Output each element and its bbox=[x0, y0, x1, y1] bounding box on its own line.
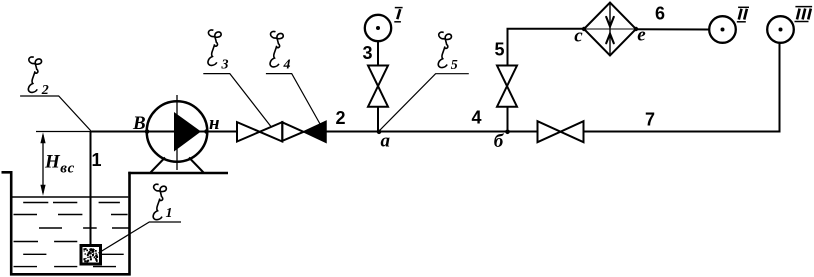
discharge regulating valve (bowtie) bbox=[538, 121, 584, 142]
svg-text:1: 1 bbox=[91, 150, 101, 170]
svg-text:4: 4 bbox=[283, 58, 291, 73]
node b bbox=[505, 130, 510, 135]
svg-text:е: е bbox=[637, 25, 646, 46]
svg-text:2: 2 bbox=[41, 83, 49, 98]
valve 3 (vertical hourglass) bbox=[368, 66, 388, 107]
wire: node b to discharge valve bbox=[508, 131, 539, 133]
pressure gauge III bbox=[767, 16, 794, 43]
wire: node b up to valve 5 bbox=[507, 107, 509, 132]
label xi3 with leader bbox=[203, 30, 271, 127]
wire: riser to gauge III bbox=[779, 43, 781, 133]
wire: pump to valve xi3 bbox=[207, 131, 238, 133]
svg-text:5: 5 bbox=[494, 40, 504, 60]
svg-text:6: 6 bbox=[655, 3, 665, 23]
wire: pipe 7 bbox=[584, 131, 781, 133]
wire: suction pipe to pump bbox=[90, 131, 147, 133]
label III (roman) bbox=[795, 7, 813, 22]
svg-text:В: В bbox=[132, 113, 146, 134]
wire: pipe 6 to gauge II bbox=[636, 28, 709, 30]
label I (roman) bbox=[394, 8, 402, 22]
wire: pipe 4 (node a to node b) bbox=[379, 131, 508, 133]
svg-text:а: а bbox=[381, 131, 391, 152]
svg-text:7: 7 bbox=[645, 110, 655, 130]
label xi4 with leader bbox=[266, 31, 321, 125]
wire: pipe 2 (valves to node a) bbox=[326, 131, 379, 133]
svg-text:3: 3 bbox=[362, 43, 372, 63]
svg-text:5: 5 bbox=[451, 58, 458, 73]
flow nozzle (diamond) bbox=[582, 3, 638, 56]
pressure gauge I bbox=[365, 15, 391, 41]
pump (circle with impeller) bbox=[145, 95, 209, 170]
wire: valve 3 up to gauge I bbox=[377, 42, 379, 66]
water level dashes bbox=[14, 203, 129, 267]
dimension arrow Hvc bbox=[40, 132, 45, 196]
strainer / foot valve (xi1) bbox=[81, 246, 101, 265]
svg-text:4: 4 bbox=[471, 108, 481, 128]
gate valve xi3 (open bowtie) bbox=[237, 122, 282, 141]
pump stand legs bbox=[151, 158, 204, 173]
leader xi5 bbox=[380, 74, 469, 131]
main suction reference line bbox=[36, 131, 91, 133]
water surface bbox=[12, 196, 128, 198]
svg-text:3: 3 bbox=[221, 58, 229, 73]
bench (pump support table) bbox=[128, 172, 228, 175]
valve 5 (vertical hourglass) bbox=[497, 66, 517, 107]
svg-text:б: б bbox=[494, 131, 505, 152]
label xi2 with leader bbox=[20, 57, 91, 131]
pressure gauge II bbox=[709, 16, 736, 43]
node a bbox=[377, 130, 382, 135]
label xi1 with leader bbox=[99, 184, 182, 253]
svg-text:2: 2 bbox=[335, 108, 345, 128]
svg-text:с: с bbox=[574, 26, 583, 47]
label xi5 bbox=[438, 32, 457, 73]
wire: node a up to valve 3 bbox=[377, 107, 379, 132]
suction pipe 1 (vertical) bbox=[90, 132, 92, 247]
label II (roman) bbox=[737, 7, 749, 21]
tank (open reservoir) bbox=[2, 171, 131, 276]
check valve xi4 (open + filled triangle) bbox=[282, 121, 326, 142]
svg-text:1: 1 bbox=[166, 206, 173, 221]
wire: valve 5 up and over to flow nozzle bbox=[508, 29, 585, 66]
